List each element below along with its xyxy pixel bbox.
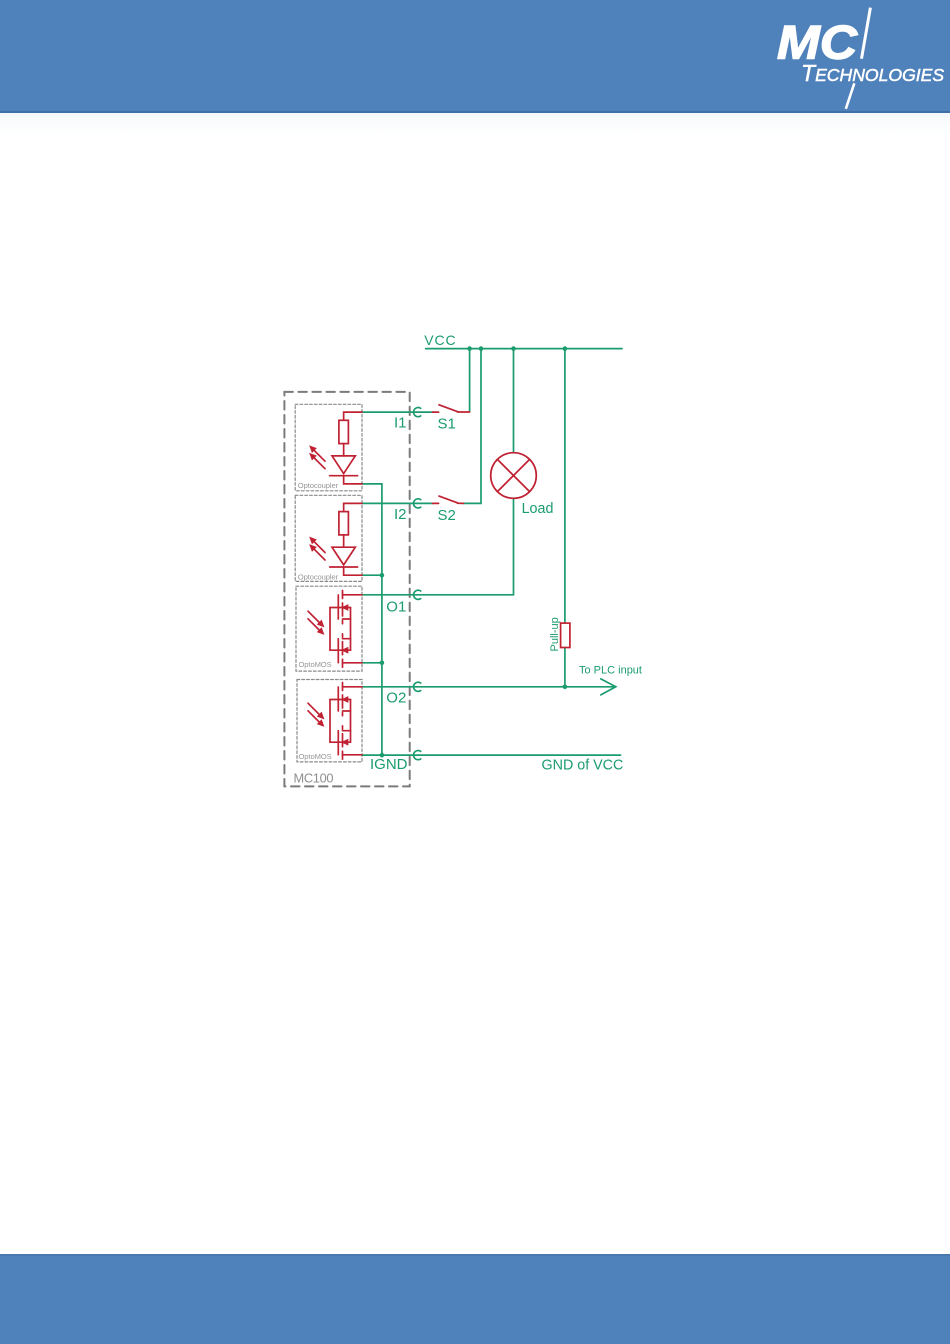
wire U3 drain bottom <box>343 662 363 664</box>
LED U2 cathode bar <box>330 566 358 568</box>
pin IGND <box>414 751 421 760</box>
svg-text:Optocoupler: Optocoupler <box>298 572 339 581</box>
wire pull-up to O2 <box>564 648 566 687</box>
wire U1 cathode <box>344 476 362 484</box>
LED U2 emission arrows <box>311 538 325 560</box>
junction VCC-S1 <box>467 346 472 351</box>
svg-text:O1: O1 <box>386 599 406 616</box>
MOSFET U4b source stub <box>343 730 351 732</box>
logo slash bottom <box>846 83 855 109</box>
svg-text:IGND: IGND <box>370 756 408 773</box>
lamp Load <box>491 453 537 499</box>
svg-text:MC100: MC100 <box>294 770 334 785</box>
LED U1 emission arrows <box>311 447 325 469</box>
wire U1 resistor to LED <box>343 444 345 456</box>
wire VCC to S2 <box>462 349 481 504</box>
svg-text:S1: S1 <box>438 416 456 433</box>
U3 source tie <box>350 608 352 651</box>
footer bar <box>0 1254 950 1344</box>
wire VCC rail <box>426 348 622 350</box>
MOSFET U3a body arrow <box>343 605 348 609</box>
svg-text:Pull-up: Pull-up <box>549 617 561 651</box>
wire U2 anode <box>344 503 362 511</box>
MOSFET U3a body line <box>330 607 351 609</box>
wire U2 cathode <box>344 567 362 575</box>
wire U3 drain top <box>343 594 363 596</box>
LED U1 <box>332 456 355 474</box>
junction VCC-Load <box>511 346 516 351</box>
pin I2 <box>414 499 421 508</box>
junction pullup-O2 <box>563 685 568 690</box>
MOSFET U3b channel <box>342 634 344 667</box>
wire U2 resistor to LED <box>343 535 345 547</box>
svg-text:OptoMOS: OptoMOS <box>299 660 332 669</box>
optocoupler 2 dashed box <box>295 495 362 581</box>
svg-text:GND of VCC: GND of VCC <box>542 757 624 773</box>
MOSFET U3a gate bar <box>337 595 339 619</box>
junction VCC-pullup <box>563 346 568 351</box>
OptoMOS U3 <box>330 591 362 668</box>
U4 source tie <box>350 700 352 743</box>
MOSFET U3a source stub <box>343 618 351 620</box>
MOSFET U4b body line <box>330 741 351 743</box>
MOSFET U3b body arrow <box>343 648 348 652</box>
svg-text:I2: I2 <box>394 506 407 523</box>
wire optocoupler 2 cathode to bus <box>362 574 382 576</box>
wire U4 drain top <box>343 686 363 688</box>
OptoMOS 2 dashed box <box>297 680 362 762</box>
junction bus-opto2 <box>380 573 385 578</box>
wire optocoupler 1 cathode to bus <box>362 483 382 485</box>
MOSFET U4a gate bar <box>337 687 339 711</box>
svg-text:OptoMOS: OptoMOS <box>299 752 332 761</box>
junction bus-IGND <box>380 753 385 758</box>
header bar <box>0 0 950 111</box>
wire O2 pin to PLC arrow <box>362 686 614 688</box>
svg-text:I1: I1 <box>394 415 407 432</box>
logo slash top <box>862 8 871 59</box>
U4 gate loop <box>329 700 331 743</box>
wire U4 drain bottom <box>343 754 363 756</box>
MOSFET U4a body line <box>330 699 351 701</box>
MC100 outer dashed box <box>284 392 409 787</box>
junction VCC-S2 <box>479 346 484 351</box>
pin I1 <box>414 408 421 417</box>
OptoMOS U4 <box>330 683 362 760</box>
MOSFET U3b gate bar <box>337 639 339 663</box>
MOSFET U3b body line <box>330 649 351 651</box>
wire U1 anode <box>344 412 362 420</box>
MOSFET U4a body arrow <box>343 697 348 701</box>
wire I1 pin to S1 <box>362 411 433 413</box>
wire I2 pin to S2 <box>362 502 433 504</box>
wire IGND bus <box>381 484 383 755</box>
wire Load to O1 <box>362 498 514 595</box>
switch S1 <box>433 405 470 412</box>
MOSFET U4a channel <box>342 683 344 716</box>
svg-text:Optocoupler: Optocoupler <box>298 481 339 490</box>
U3 light arrows <box>308 611 323 633</box>
svg-text:To PLC input: To PLC input <box>579 665 642 677</box>
resistor U2 <box>339 512 349 535</box>
logo MC Technologies <box>777 16 944 87</box>
wire VCC to S1 <box>469 349 471 412</box>
pin O1 <box>414 590 421 599</box>
MOSFET U4b body arrow <box>343 740 348 744</box>
MOSFET U3a channel <box>342 591 344 624</box>
U4 light arrows <box>308 703 323 725</box>
optocoupler U1 LED branch <box>330 412 362 484</box>
optocoupler U2 LED branch <box>330 503 362 575</box>
svg-text:VCC: VCC <box>424 332 456 348</box>
junction bus-optomos1 <box>380 661 385 666</box>
MOSFET U4b channel <box>342 726 344 759</box>
LED U1 cathode bar <box>330 475 358 477</box>
wire VCC to pull-up <box>564 349 566 623</box>
U3 gate loop <box>329 608 331 651</box>
svg-text:MC: MC <box>777 16 858 69</box>
pin O2 <box>414 682 421 691</box>
svg-text:O2: O2 <box>386 690 406 707</box>
MOSFET U4b gate bar <box>337 731 339 755</box>
resistor U1 <box>339 420 349 443</box>
OptoMOS 1 dashed box <box>296 586 362 671</box>
MOSFET U3b source stub <box>343 638 351 640</box>
wire VCC to Load <box>513 349 515 453</box>
LED U2 <box>332 547 355 565</box>
optocoupler 1 dashed box <box>295 404 362 491</box>
svg-text:Load: Load <box>522 501 554 517</box>
wire OptoMOS 1 source to bus <box>362 662 382 664</box>
svg-text:S2: S2 <box>438 507 456 524</box>
resistor Pull-up <box>561 623 570 647</box>
MOSFET U4a source stub <box>343 710 351 712</box>
arrow To PLC input <box>601 679 616 695</box>
switch S2 <box>433 496 464 503</box>
wire IGND to GND of VCC <box>362 754 621 756</box>
